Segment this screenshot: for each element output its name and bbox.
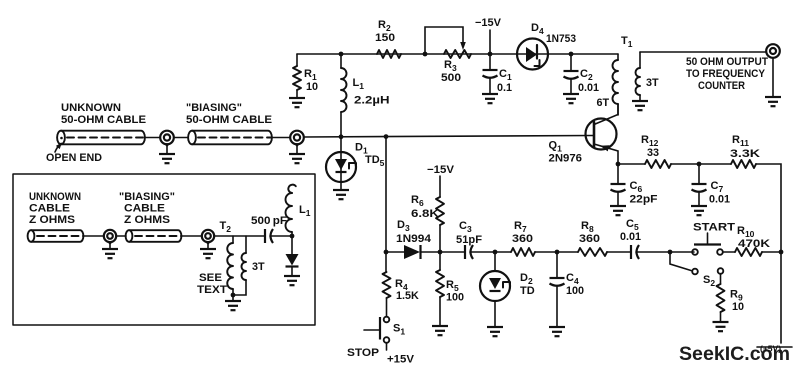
connector xyxy=(104,230,116,245)
zener diode D4 xyxy=(517,22,576,70)
connector xyxy=(202,230,214,245)
node xyxy=(384,134,389,139)
capacitor C7 xyxy=(692,164,731,206)
resistor R9 xyxy=(717,274,745,322)
ground xyxy=(289,154,305,163)
switch S2 xyxy=(670,252,723,288)
label 50 ohm output xyxy=(686,56,768,92)
wire xyxy=(535,251,578,253)
svg-text:"BIASING": "BIASING" xyxy=(186,102,242,114)
svg-text:3T: 3T xyxy=(646,77,659,89)
ground xyxy=(713,322,729,331)
svg-text:0.01: 0.01 xyxy=(709,194,730,206)
svg-text:6.8K: 6.8K xyxy=(411,208,439,220)
svg-text:−15V: −15V xyxy=(475,17,502,29)
resistor R11 xyxy=(730,134,760,168)
wire xyxy=(272,137,290,139)
wire xyxy=(296,144,298,154)
node xyxy=(616,162,621,167)
ground xyxy=(333,190,349,199)
node xyxy=(488,52,493,57)
svg-text:500: 500 xyxy=(441,72,461,84)
node xyxy=(423,52,428,57)
svg-text:360: 360 xyxy=(512,233,533,245)
node xyxy=(384,250,389,255)
capacitor C5 xyxy=(620,218,641,259)
node xyxy=(339,134,344,139)
ground xyxy=(102,249,118,258)
-15V supply xyxy=(427,164,455,197)
ground xyxy=(549,327,565,336)
svg-text:Z OHMS: Z OHMS xyxy=(29,214,75,226)
svg-text:50 OHM OUTPUT: 50 OHM OUTPUT xyxy=(686,56,768,68)
svg-text:CABLE: CABLE xyxy=(124,203,165,215)
transformer T1 primary 6T xyxy=(597,35,633,115)
transistor Q1 xyxy=(549,104,619,165)
ground xyxy=(225,301,241,310)
wire xyxy=(109,242,111,249)
wire xyxy=(636,251,694,253)
wire xyxy=(232,295,234,301)
capacitor 500pF xyxy=(251,215,287,243)
cable unknown 50-ohm xyxy=(57,131,145,145)
svg-text:+15V: +15V xyxy=(387,354,415,366)
cable biasing z-ohms xyxy=(126,230,182,242)
svg-text:UNKNOWN: UNKNOWN xyxy=(61,102,121,114)
connector xyxy=(290,131,304,147)
resistor R4 xyxy=(383,252,420,316)
-15V supply xyxy=(475,17,502,54)
ground xyxy=(284,276,300,285)
capacitor C4 xyxy=(550,252,585,327)
svg-text:3.3K: 3.3K xyxy=(730,148,760,160)
wire xyxy=(304,136,593,138)
resistor R12 xyxy=(641,134,671,168)
transformer T1 secondary 3T xyxy=(636,52,660,101)
svg-text:STOP: STOP xyxy=(347,347,379,359)
ground xyxy=(289,98,305,107)
wire xyxy=(116,235,126,237)
wire xyxy=(297,53,517,55)
capacitor C1 xyxy=(483,54,513,94)
wire xyxy=(618,163,645,165)
wire xyxy=(181,235,202,237)
ground xyxy=(563,94,579,103)
svg-text:51pF: 51pF xyxy=(456,234,482,246)
ground xyxy=(691,206,707,215)
wire xyxy=(385,137,387,252)
svg-text:1N994: 1N994 xyxy=(396,233,431,245)
wire xyxy=(83,235,104,237)
inset box xyxy=(13,174,315,325)
label biasing cable xyxy=(186,102,272,126)
ground xyxy=(487,327,503,336)
switch S1 pushbutton xyxy=(347,317,405,359)
svg-text:TEXT: TEXT xyxy=(197,284,227,296)
wire xyxy=(640,51,766,53)
svg-text:OPEN END: OPEN END xyxy=(46,152,102,164)
wire xyxy=(166,144,168,154)
ground xyxy=(159,154,175,163)
svg-text:33: 33 xyxy=(647,147,659,159)
wire xyxy=(723,251,735,253)
cable unknown z-ohms xyxy=(28,230,84,242)
svg-text:100: 100 xyxy=(446,292,464,304)
inductor L1 xyxy=(341,54,390,137)
node xyxy=(668,250,673,255)
node xyxy=(555,250,560,255)
output connector xyxy=(766,44,780,58)
svg-text:START: START xyxy=(693,222,735,234)
tunnel diode D1 xyxy=(326,137,385,190)
capacitor C2 xyxy=(564,54,600,94)
wire xyxy=(756,164,781,343)
svg-text:470K: 470K xyxy=(738,238,770,250)
wire xyxy=(207,242,209,249)
node xyxy=(697,162,702,167)
wire xyxy=(386,251,404,253)
node xyxy=(779,250,784,255)
resistor R3 wiper arrow xyxy=(425,27,471,84)
wire xyxy=(270,235,292,237)
svg-text:150: 150 xyxy=(375,32,395,44)
svg-text:"BIASING": "BIASING" xyxy=(119,191,175,203)
switch START pushbutton xyxy=(692,222,735,255)
watermark seekic xyxy=(679,343,790,365)
svg-text:10: 10 xyxy=(732,301,744,313)
connector xyxy=(160,131,174,147)
wire xyxy=(145,137,160,139)
svg-text:2.2µH: 2.2µH xyxy=(354,95,390,107)
svg-text:SEE: SEE xyxy=(199,272,222,284)
svg-text:SeekIC.com: SeekIC.com xyxy=(679,343,790,365)
svg-text:360: 360 xyxy=(579,233,600,245)
resistor R5 xyxy=(436,252,464,326)
node xyxy=(290,234,295,239)
ground xyxy=(632,101,648,110)
capacitor C3 xyxy=(456,220,482,259)
svg-text:1.5K: 1.5K xyxy=(396,290,419,302)
wire xyxy=(671,163,731,165)
svg-text:3T: 3T xyxy=(252,261,265,273)
label unknown cable inset xyxy=(29,191,81,226)
+15V supply xyxy=(387,343,415,366)
svg-text:−15V: −15V xyxy=(427,164,455,176)
label biasing cable inset xyxy=(119,191,175,226)
svg-text:50-OHM CABLE: 50-OHM CABLE xyxy=(186,114,272,126)
label see text xyxy=(197,272,227,296)
wire xyxy=(548,53,618,55)
svg-text:Z OHMS: Z OHMS xyxy=(124,214,170,226)
wire xyxy=(174,137,188,139)
resistor R7 xyxy=(511,220,535,256)
svg-text:0.1: 0.1 xyxy=(497,82,512,94)
node xyxy=(231,293,236,298)
resistor R6 xyxy=(411,194,444,252)
wire xyxy=(762,251,781,253)
node xyxy=(339,52,344,57)
svg-text:22pF: 22pF xyxy=(630,194,658,206)
svg-text:0.01: 0.01 xyxy=(620,231,641,243)
svg-text:CABLE: CABLE xyxy=(29,203,70,215)
cable biasing 50-ohm xyxy=(188,131,272,145)
transformer T2 primary xyxy=(220,220,233,295)
svg-text:50-OHM CABLE: 50-OHM CABLE xyxy=(61,114,146,126)
wire xyxy=(470,251,511,253)
tunnel diode D2 xyxy=(480,252,535,327)
svg-text:TO FREQUENCY: TO FREQUENCY xyxy=(686,68,766,80)
label +5V partially hidden xyxy=(757,344,792,354)
svg-text:500 pF: 500 pF xyxy=(251,215,287,227)
resistor R8 xyxy=(578,220,607,256)
svg-text:0.01: 0.01 xyxy=(578,82,599,94)
ground xyxy=(432,326,448,335)
ground xyxy=(765,97,781,106)
capacitor C6 xyxy=(611,164,658,206)
diode D3 xyxy=(396,219,431,259)
wire xyxy=(214,235,265,237)
svg-text:UNKNOWN: UNKNOWN xyxy=(29,191,81,203)
inductor L1 inset xyxy=(286,185,311,236)
svg-text:100: 100 xyxy=(566,285,584,297)
ground xyxy=(200,249,216,258)
wire xyxy=(607,251,631,253)
resistor R10 xyxy=(735,225,770,256)
svg-text:TD: TD xyxy=(520,285,535,297)
diode inset xyxy=(286,236,299,276)
svg-text:2N976: 2N976 xyxy=(549,153,583,165)
node xyxy=(569,52,574,57)
wire xyxy=(772,58,774,97)
node xyxy=(493,250,498,255)
label unknown cable xyxy=(61,102,146,126)
ground xyxy=(482,94,498,103)
svg-text:6T: 6T xyxy=(597,97,610,109)
svg-text:10: 10 xyxy=(306,81,318,93)
transformer T2 secondary 3T xyxy=(233,236,265,295)
wire xyxy=(421,251,465,253)
resistor R2 xyxy=(375,19,401,58)
svg-text:1N753: 1N753 xyxy=(546,33,576,45)
ground xyxy=(610,206,626,215)
resistor R1 xyxy=(293,54,318,98)
label open end xyxy=(46,143,102,165)
svg-text:COUNTER: COUNTER xyxy=(698,80,745,92)
node xyxy=(438,250,443,255)
